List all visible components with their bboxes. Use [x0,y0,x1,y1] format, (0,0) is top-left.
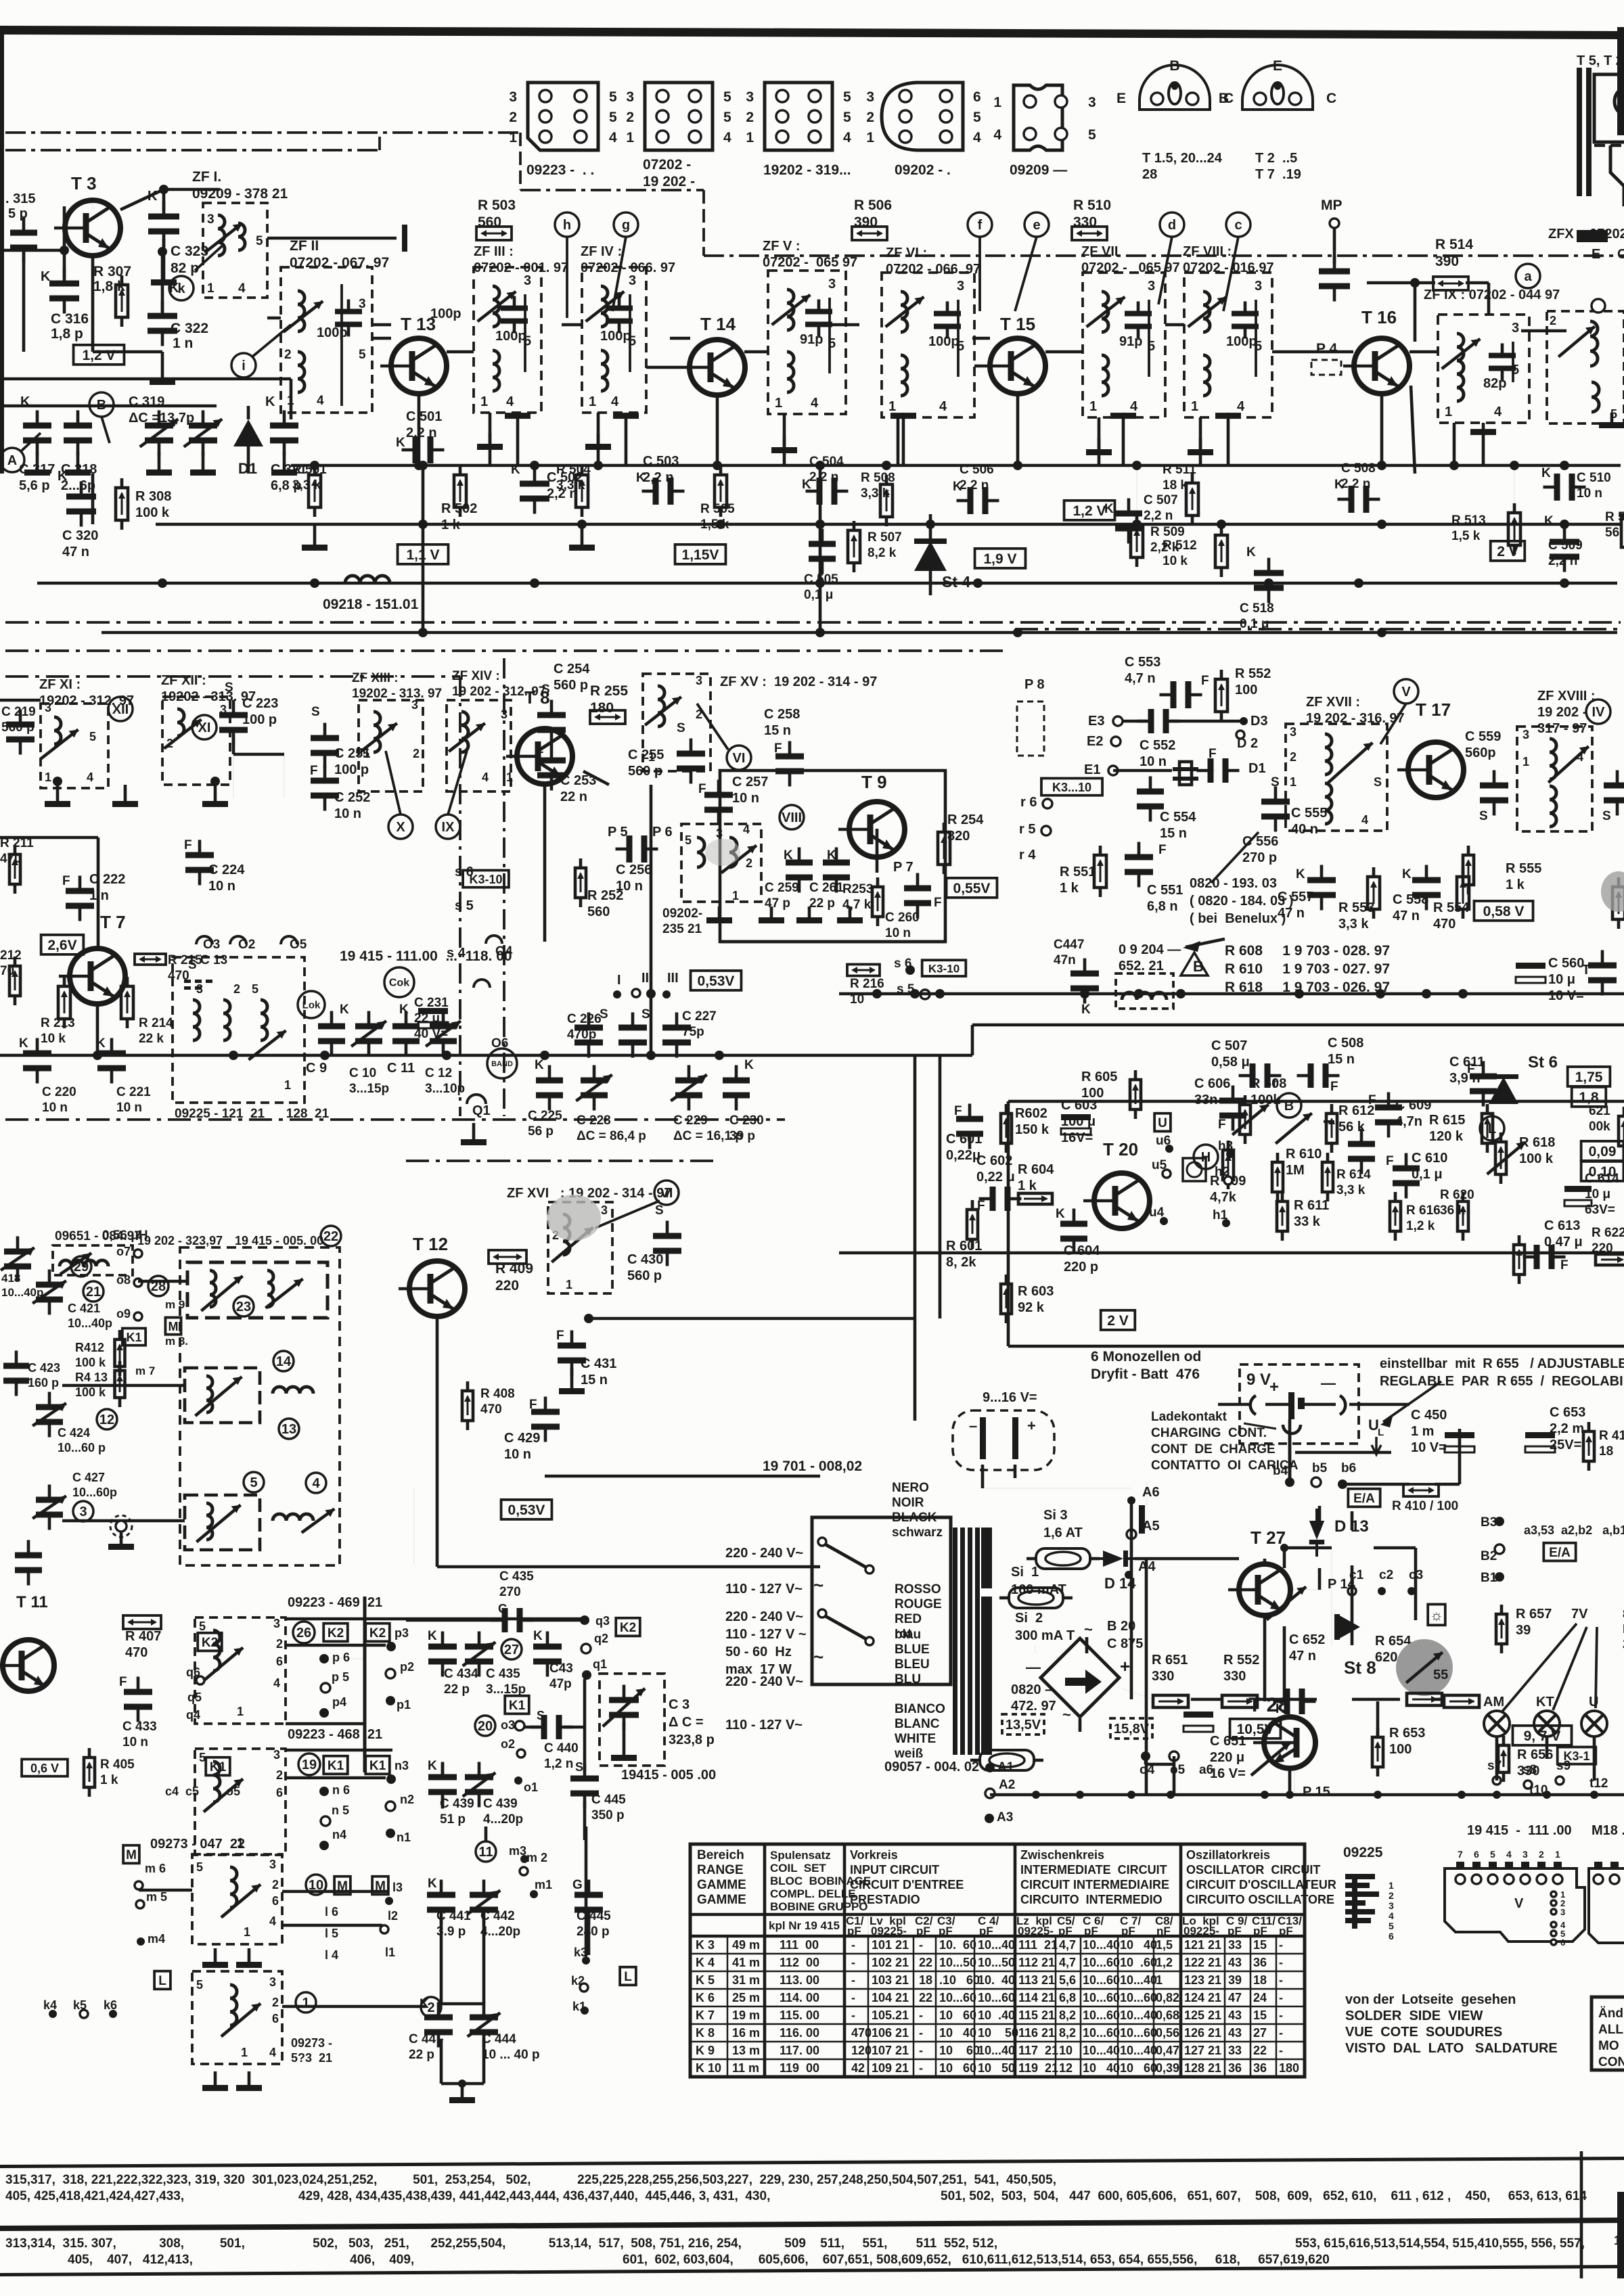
svg-text:c: c [1234,218,1242,233]
svg-text:ZF VII: ZF VII [1081,244,1118,259]
svg-text:-: - [851,1938,855,1952]
svg-text:B: B [97,398,106,413]
svg-text:C 227: C 227 [682,1009,717,1024]
svg-text:C 518: C 518 [1240,601,1274,616]
svg-text:R 501: R 501 [292,463,327,477]
svg-text:1: 1 [45,771,51,784]
svg-text:3,3 k: 3,3 k [1338,917,1369,932]
svg-text:C 875: C 875 [1107,1636,1143,1651]
svg-text:C 322: C 322 [171,321,208,336]
svg-text:5: 5 [843,89,851,105]
svg-text:43: 43 [1228,1956,1242,1969]
svg-text:C 508: C 508 [1328,1036,1363,1051]
svg-text:92 k: 92 k [1018,1300,1045,1315]
svg-text:ZF XVIII :: ZF XVIII : [1537,689,1596,704]
svg-text:pF: pF [979,1925,993,1937]
svg-text:T 16: T 16 [1361,307,1397,327]
svg-text:INPUT CIRCUIT: INPUT CIRCUIT [850,1863,939,1877]
svg-text:-: - [919,1938,923,1952]
svg-text:100p: 100p [430,306,461,321]
svg-text:220 - 240 V~: 220 - 240 V~ [725,1609,803,1624]
svg-text:07202 - 066. 97: 07202 - 066. 97 [886,262,980,277]
svg-text:100p: 100p [495,329,526,344]
svg-text:C 258: C 258 [764,707,800,722]
svg-text:b6: b6 [1341,1461,1356,1475]
svg-text:4: 4 [1389,1910,1394,1921]
svg-text:R 515: R 515 [1605,510,1624,524]
svg-text:-: - [919,2008,923,2022]
svg-text:R 255: R 255 [590,683,628,699]
svg-text:R 554: R 554 [1433,900,1470,915]
svg-text:F: F [310,764,318,778]
svg-text:22: 22 [1253,2044,1267,2057]
svg-text:3: 3 [273,1748,280,1762]
svg-text:Si 2: Si 2 [1015,1611,1043,1626]
svg-text:2: 2 [1389,1890,1394,1901]
svg-text:22 p: 22 p [409,2048,434,2062]
svg-text:36: 36 [1253,2061,1267,2075]
svg-text:T 14: T 14 [700,314,736,334]
svg-text:L: L [624,1970,632,1984]
svg-text:4,7 n: 4,7 n [1125,671,1156,686]
svg-text:621: 621 [1589,1104,1610,1118]
svg-text:19 202 -: 19 202 - [1537,705,1587,720]
svg-text:K: K [428,1629,437,1643]
svg-text:0,58 V: 0,58 V [1483,904,1525,919]
svg-text:5: 5 [973,110,981,125]
svg-text:4: 4 [973,130,981,145]
svg-text:S: S [677,721,685,735]
svg-text:40 V=: 40 V= [414,1027,448,1041]
svg-text:127 21: 127 21 [1184,2044,1221,2057]
svg-text:h: h [563,218,571,233]
svg-text:1: 1 [993,95,1001,110]
svg-text:220 - 240 V~: 220 - 240 V~ [725,1674,803,1689]
svg-text:40 n: 40 n [1291,822,1318,837]
svg-text:39: 39 [1516,1623,1531,1638]
svg-text:K: K [535,1058,544,1072]
svg-text:K3...10: K3...10 [1052,781,1091,794]
svg-text:S: S [575,1760,583,1774]
svg-text:C 507: C 507 [1144,493,1178,507]
svg-text:4: 4 [1577,750,1583,764]
svg-text:CHARGING CONT.: CHARGING CONT. [1151,1426,1267,1440]
svg-text:A1: A1 [997,1760,1014,1774]
svg-text:p4: p4 [332,1695,346,1709]
svg-text:1,2 n: 1,2 n [544,1757,573,1771]
svg-text:C 433: C 433 [122,1720,157,1734]
svg-text:2: 2 [746,110,754,125]
svg-text:4: 4 [273,1676,280,1690]
svg-text:1 k: 1 k [1018,1178,1037,1193]
svg-text:K 3: K 3 [696,1938,715,1952]
svg-text:0,55V: 0,55V [953,881,991,896]
svg-text:116. 00: 116. 00 [780,2026,819,2040]
svg-text:-: - [851,1956,855,1969]
svg-text:4: 4 [1361,813,1368,827]
svg-text:330: 330 [1073,214,1097,230]
svg-text:pF: pF [916,1925,930,1937]
svg-text:C 552: C 552 [1140,738,1175,753]
svg-text:2,2 n: 2,2 n [1341,477,1370,491]
svg-text:405, 407, 412,413,: 405, 407, 412,413, 406, 409, [68,2253,414,2267]
svg-text:Bereich: Bereich [697,1848,744,1862]
svg-text:O6: O6 [491,1036,508,1051]
svg-text:einstellbar mit R 655 / AD: einstellbar mit R 655 / ADJUSTABLE WITH … [1380,1356,1624,1371]
svg-text:C 427: C 427 [72,1471,105,1484]
svg-text:5: 5 [843,110,851,125]
svg-text:K: K [1246,545,1256,559]
svg-text:E2: E2 [1087,734,1103,749]
svg-text:I: I [617,973,621,988]
svg-text:11: 11 [478,1845,493,1860]
svg-text:3: 3 [626,89,634,105]
svg-text:09202 - .: 09202 - . [895,162,951,178]
svg-text:3: 3 [501,708,507,721]
svg-text:1,2 k: 1,2 k [1406,1219,1435,1233]
svg-text:47: 47 [1228,1991,1242,2004]
svg-text:3: 3 [196,982,203,996]
svg-text:Si 3: Si 3 [1043,1508,1068,1523]
svg-text:19 415 - 005. 00: 19 415 - 005. 00 [235,1234,323,1247]
svg-text:K3-10: K3-10 [469,873,502,886]
svg-text:weiß: weiß [894,1747,924,1761]
svg-text:Oszillatorkreis: Oszillatorkreis [1186,1848,1270,1862]
svg-text:blau: blau [895,1628,921,1642]
svg-text:10 n: 10 n [122,1735,148,1749]
svg-text:Ladekontakt: Ladekontakt [1151,1410,1227,1424]
svg-text:2: 2 [509,110,517,125]
svg-text:C 551: C 551 [1147,883,1183,898]
svg-text:3: 3 [207,212,215,227]
svg-text:F: F [62,874,70,888]
svg-text:C 503: C 503 [643,454,679,469]
svg-text:10...50: 10...50 [978,1956,1015,1969]
svg-text:47 n: 47 n [62,545,89,559]
svg-text:C 11: C 11 [387,1061,415,1076]
svg-text:10...60: 10...60 [1083,1991,1120,2004]
svg-text:4: 4 [939,399,947,414]
svg-text:112 21: 112 21 [1018,1956,1055,1969]
svg-text:MO: MO [1598,2039,1619,2053]
svg-text:10...40: 10...40 [978,2044,1015,2057]
svg-text:10 n: 10 n [885,926,911,940]
svg-text:R 513: R 513 [1451,513,1486,528]
svg-text:K 9: K 9 [696,2044,715,2057]
svg-text:09223 - 468 21: 09223 - 468 21 [288,1727,382,1742]
svg-text:C 435: C 435 [486,1667,520,1681]
svg-text:R 605: R 605 [1081,1070,1117,1084]
svg-text:560 p: 560 p [1,720,35,735]
svg-text:124 21: 124 21 [1184,1991,1221,2004]
svg-text:C 653: C 653 [1550,1405,1585,1420]
svg-text:3: 3 [957,279,964,294]
svg-text:1 k: 1 k [441,518,461,532]
svg-text:q3: q3 [595,1614,610,1628]
svg-text:C 421: C 421 [68,1302,100,1315]
svg-text:R 620: R 620 [1440,1188,1474,1202]
svg-text:o8: o8 [116,1273,131,1287]
svg-text:C 254: C 254 [554,662,590,676]
svg-text:R 505: R 505 [700,502,735,516]
svg-text:50 - 60 Hz: 50 - 60 Hz [725,1645,792,1659]
svg-text:R 214: R 214 [139,1016,173,1030]
svg-text:T 7: T 7 [100,912,126,932]
svg-text:27: 27 [1253,2026,1267,2040]
svg-text:C 231: C 231 [414,996,449,1010]
svg-text:5: 5 [609,89,617,105]
svg-text:CONT DE CHARGE: CONT DE CHARGE [1151,1442,1276,1456]
svg-text:R 509: R 509 [1150,525,1185,539]
svg-text:3,3 k: 3,3 k [861,486,890,501]
svg-text:110 - 127 V ~: 110 - 127 V ~ [725,1627,807,1642]
svg-text:12: 12 [99,1413,114,1427]
svg-text:.10 60: .10 60 [939,1973,980,1987]
svg-text:-: - [919,2061,923,2075]
svg-text:0,56: 0,56 [1156,2026,1179,2040]
svg-text:110 - 127 V~: 110 - 127 V~ [725,1718,803,1732]
svg-text:Q1: Q1 [472,1103,491,1118]
svg-text:VI: VI [733,751,746,766]
svg-text:10 k: 10 k [1163,554,1188,568]
svg-text:560p: 560p [1465,745,1496,760]
svg-text:C 431: C 431 [581,1356,616,1371]
svg-text:C 439: C 439 [440,1797,474,1811]
svg-text:R 510: R 510 [1073,198,1111,213]
svg-text:C 506: C 506 [960,463,994,477]
svg-text:10 60: 10 60 [939,2008,976,2022]
svg-text:k6: k6 [104,1998,117,2012]
svg-text:4: 4 [506,394,514,409]
svg-text:C 423: C 423 [28,1361,60,1375]
svg-text:C 430: C 430 [627,1252,663,1267]
svg-text:5: 5 [609,110,617,125]
svg-text:470: 470 [1433,917,1456,932]
svg-text:3: 3 [1148,279,1155,294]
svg-text:601, 602, 603,604, 605,: 601, 602, 603,604, 605,606, 607,651, 508… [623,2253,1330,2267]
svg-text:U: U [1158,1116,1167,1130]
svg-text:4: 4 [743,823,750,836]
svg-text:M18 .00: M18 .00 [1592,1823,1624,1838]
svg-text:5: 5 [1389,1921,1394,1931]
svg-text:15 n: 15 n [1160,826,1187,841]
svg-text:C 434: C 434 [444,1667,478,1681]
svg-text:100 μ: 100 μ [1061,1114,1096,1129]
svg-text:0,53V: 0,53V [698,973,735,989]
svg-text:C 228: C 228 [577,1113,611,1128]
svg-text:ΔC = 86,4 p: ΔC = 86,4 p [577,1129,646,1143]
svg-text:103 21: 103 21 [872,1973,909,1987]
svg-text:19415 - 005 .00: 19415 - 005 .00 [621,1768,716,1783]
svg-text:18: 18 [919,1973,932,1987]
svg-text:09218 - 151.01: 09218 - 151.01 [323,597,419,612]
svg-text:R 512: R 512 [1163,538,1197,553]
svg-text:106 21: 106 21 [872,2026,909,2040]
svg-text:T 9: T 9 [861,772,887,792]
svg-text:K: K [396,436,405,450]
svg-text:T 20: T 20 [1103,1139,1138,1160]
svg-text:560 p: 560 p [627,1268,662,1283]
svg-text:1,2: 1,2 [1156,1956,1173,1969]
svg-text:10 40: 10 40 [1120,1938,1157,1952]
svg-text:29: 29 [74,1260,89,1275]
svg-text:C 445: C 445 [577,1909,611,1923]
svg-text:15,8V: 15,8V [1114,1722,1150,1737]
svg-text:T 12: T 12 [413,1234,448,1254]
svg-text:S: S [1374,775,1382,789]
svg-text:418: 418 [1,1272,20,1285]
svg-text:2: 2 [166,737,173,750]
svg-text:4: 4 [1130,399,1138,414]
svg-text:a6: a6 [1199,1763,1213,1777]
svg-text:R4 13: R4 13 [75,1371,108,1384]
svg-text:m 7: m 7 [135,1364,155,1377]
svg-text:T 17: T 17 [1416,699,1451,720]
svg-text:2: 2 [276,1768,283,1782]
svg-text:R 213: R 213 [41,1016,75,1030]
svg-text:CIRCUITO OSCILLATORE: CIRCUITO OSCILLATORE [1186,1893,1334,1906]
svg-text:m 8.: m 8. [165,1335,188,1348]
svg-text:C 257: C 257 [732,775,768,789]
svg-text:R 618: R 618 [1519,1135,1555,1150]
svg-text:C 225: C 225 [528,1109,562,1123]
svg-text:3: 3 [1255,279,1262,294]
svg-text:47p: 47p [549,1677,572,1691]
svg-text:R 409: R 409 [495,1261,533,1277]
svg-text:16 m: 16 m [732,2026,760,2040]
svg-text:R 216: R 216 [850,977,884,991]
svg-text:T 1.5, 20...24: T 1.5, 20...24 [1142,151,1223,166]
svg-text:K: K [533,1629,543,1643]
svg-text:R 610 1 9 703 - 027. 97: R 610 1 9 703 - 027. 97 [1225,961,1390,977]
svg-text:10,5V: 10,5V [1237,1722,1274,1737]
svg-text:10...60: 10...60 [1083,1973,1120,1987]
svg-text:F: F [529,1398,537,1412]
svg-text:0,1 μ: 0,1 μ [804,588,833,602]
svg-text:BLEU: BLEU [895,1657,930,1672]
svg-text:10 n: 10 n [42,1101,68,1115]
svg-text:16 V=: 16 V= [1210,1766,1246,1781]
svg-text:n 5: n 5 [332,1804,349,1817]
svg-text:10...60p: 10...60p [72,1486,117,1499]
svg-text:BLU: BLU [895,1672,921,1686]
svg-text:S: S [1479,809,1488,823]
svg-text:C 219: C 219 [1,705,36,719]
svg-text:R 254: R 254 [947,812,984,827]
svg-text:SOLDER SIDE VIEW: SOLDER SIDE VIEW [1345,2008,1483,2023]
svg-text:Si 1: Si 1 [1011,1565,1039,1580]
svg-text:1: 1 [746,130,754,145]
svg-text:R 514: R 514 [1435,237,1473,252]
svg-text:K: K [265,394,275,409]
svg-text:~: ~ [813,1647,824,1667]
svg-text:82p: 82p [1483,376,1506,391]
svg-text:R 555: R 555 [1506,861,1541,876]
svg-text:3: 3 [45,701,51,714]
svg-text:270: 270 [499,1585,521,1599]
svg-text:2,2 n: 2,2 n [406,426,437,440]
svg-text:C 556: C 556 [1242,834,1278,849]
svg-text:IV: IV [1592,705,1606,720]
svg-text:R602: R602 [1015,1106,1047,1121]
svg-text:K 4: K 4 [696,1956,715,1969]
svg-text:R 405: R 405 [100,1758,135,1772]
svg-text:1: 1 [888,399,896,414]
svg-text:18: 18 [1599,1444,1613,1459]
svg-text:ZF XII :: ZF XII : [161,673,206,688]
svg-text:10...40p: 10...40p [68,1316,112,1330]
svg-text:09225: 09225 [1343,1845,1383,1860]
svg-text:09273 -: 09273 - [291,2036,332,2050]
svg-text:C 323: C 323 [171,244,208,259]
svg-text:F: F [119,1675,127,1689]
svg-text:C 652: C 652 [1289,1632,1325,1647]
svg-text:110 - 127 V~: 110 - 127 V~ [725,1582,803,1597]
svg-text:100 k: 100 k [75,1356,106,1369]
svg-text:4: 4 [1494,405,1502,419]
svg-text:C 445: C 445 [591,1793,626,1807]
svg-text:III: III [667,971,679,986]
svg-text:F: F [1158,843,1167,857]
svg-text:19 202 - 323,97: 19 202 - 323,97 [137,1234,223,1247]
svg-text:-: - [1279,2044,1283,2057]
svg-text:114. 00: 114. 00 [780,1991,819,2004]
svg-text:300 mA T: 300 mA T [1015,1628,1075,1643]
svg-text:1: 1 [241,2046,248,2059]
svg-text:M: M [168,1320,179,1333]
svg-text:125 21: 125 21 [1184,2008,1221,2022]
svg-text:212: 212 [0,948,22,963]
svg-text:39: 39 [1228,1973,1242,1987]
svg-text:Δ C =: Δ C = [669,1715,704,1730]
svg-text:111 21: 111 21 [1018,1938,1058,1952]
svg-text:X: X [396,820,405,835]
svg-text:-: - [851,2008,855,2022]
svg-text:C 557: C 557 [1278,890,1313,904]
svg-text:07202 - 001. 97: 07202 - 001. 97 [474,260,568,275]
svg-text:220 p: 220 p [1064,1260,1098,1275]
svg-text:1 k: 1 k [100,1773,118,1787]
svg-text:R 622: R 622 [1592,1226,1624,1240]
svg-text:T 5, T 26: T 5, T 26 [1577,53,1624,68]
svg-text:0,09: 0,09 [1589,1144,1617,1160]
svg-text:K1: K1 [509,1699,526,1713]
svg-text:q1: q1 [593,1657,607,1671]
svg-text:100p: 100p [600,329,631,344]
svg-text:1,2 V: 1,2 V [82,348,115,363]
svg-text:1,8 p: 1,8 p [51,326,83,342]
svg-text:C 606: C 606 [1194,1076,1230,1091]
svg-text:470p: 470p [567,1028,596,1042]
svg-text:C 610: C 610 [1412,1151,1447,1166]
svg-text:K: K [20,394,30,409]
svg-text:10 μ: 10 μ [1585,1187,1610,1201]
svg-text:36: 36 [1253,1956,1267,1969]
svg-text:10 n: 10 n [116,1101,142,1115]
svg-text:107 21: 107 21 [872,2044,909,2057]
svg-text:33: 33 [1228,2044,1242,2057]
svg-text:4: 4 [993,127,1001,143]
svg-text:180: 180 [1279,2061,1299,2075]
svg-text:i: i [242,359,246,373]
svg-text:1: 1 [1555,1849,1560,1860]
svg-text:O4: O4 [495,944,513,959]
svg-text:6: 6 [1474,1849,1479,1860]
svg-text:19: 19 [302,1758,317,1772]
svg-text:PRESTADIO: PRESTADIO [850,1893,920,1906]
svg-text:R 653: R 653 [1389,1726,1425,1741]
svg-text:WHITE: WHITE [895,1732,936,1746]
